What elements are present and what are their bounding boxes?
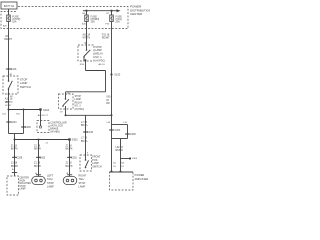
svg-text:18: 18 [121, 166, 124, 168]
svg-text:A20: A20 [3, 24, 8, 27]
svg-text:WT/TN: WT/TN [83, 37, 91, 40]
svg-text:A16: A16 [82, 23, 87, 26]
svg-text:LEFT: LEFT [47, 174, 54, 177]
svg-text:RIGHT: RIGHT [79, 174, 87, 177]
svg-text:C302: C302 [39, 156, 45, 159]
svg-text:BK/PK: BK/PK [66, 148, 73, 151]
svg-text:RD/WT: RD/WT [4, 38, 12, 41]
svg-text:STOP: STOP [47, 182, 54, 185]
svg-text:BK/PK: BK/PK [11, 148, 18, 151]
svg-text:RD: RD [106, 102, 110, 105]
svg-text:S104: S104 [43, 108, 50, 112]
svg-text:Z1: Z1 [46, 143, 49, 145]
svg-text:A35 18 VT: A35 18 VT [38, 114, 49, 117]
svg-text:L61: L61 [124, 122, 128, 124]
svg-text:RD/WT: RD/WT [102, 37, 110, 40]
svg-text:CENTER: CENTER [130, 12, 143, 16]
svg-text:BATT A0: BATT A0 [4, 4, 15, 8]
svg-text:87: 87 [60, 112, 63, 114]
svg-text:C206: C206 [25, 126, 31, 129]
svg-text:(IN PDC): (IN PDC) [95, 59, 105, 62]
svg-text:BK/YL: BK/YL [81, 140, 88, 143]
svg-text:C208: C208 [16, 156, 22, 159]
svg-text:F32: F32 [106, 24, 111, 26]
svg-text:LAMP: LAMP [47, 186, 54, 189]
svg-text:30: 30 [84, 42, 87, 45]
svg-text:HIGH: HIGH [19, 180, 25, 182]
svg-text:BK/PK: BK/PK [66, 165, 73, 168]
svg-text:(W-ABS): (W-ABS) [50, 131, 60, 134]
svg-text:BK/PK: BK/PK [34, 165, 41, 168]
svg-text:T50: T50 [16, 113, 21, 115]
svg-text:B1: B1 [10, 74, 13, 76]
svg-text:TAIL/: TAIL/ [79, 178, 85, 181]
svg-text:POWER: POWER [135, 173, 145, 177]
svg-text:STOP: STOP [19, 186, 26, 188]
svg-text:LAMP: LAMP [19, 188, 26, 191]
svg-text:S100: S100 [114, 73, 121, 77]
svg-text:15A: 15A [91, 21, 96, 24]
svg-text:(IN PDC): (IN PDC) [75, 108, 85, 111]
svg-text:C204: C204 [115, 129, 121, 132]
svg-text:A6 D3: A6 D3 [99, 63, 106, 66]
svg-text:SWITCH: SWITCH [92, 165, 102, 168]
svg-text:B1: B1 [113, 163, 116, 165]
svg-text:18 WT: 18 WT [5, 105, 12, 107]
svg-text:SWITCH: SWITCH [20, 85, 31, 89]
svg-text:BK/PK: BK/PK [11, 165, 18, 168]
svg-text:CENTER: CENTER [19, 178, 29, 180]
svg-text:18: 18 [113, 166, 116, 168]
svg-text:A: A [12, 168, 14, 171]
svg-text:S302: S302 [72, 138, 79, 142]
svg-text:20A: 20A [116, 21, 121, 24]
svg-text:C204: C204 [11, 121, 17, 124]
svg-text:C108: C108 [87, 131, 93, 134]
svg-text:C206: C206 [130, 133, 136, 136]
svg-text:C303: C303 [71, 156, 77, 159]
svg-text:BK/PK: BK/PK [34, 148, 41, 151]
svg-text:STOP: STOP [79, 182, 86, 185]
svg-text:C126: C126 [11, 68, 17, 71]
svg-text:AMPLIFIER: AMPLIFIER [135, 177, 149, 181]
svg-text:87A: 87A [80, 63, 84, 66]
svg-text:BK/YL: BK/YL [81, 124, 88, 127]
svg-text:BK/RD: BK/RD [116, 149, 124, 152]
svg-text:L60: L60 [107, 122, 111, 124]
svg-text:B4: B4 [121, 163, 124, 165]
svg-text:LAMP: LAMP [79, 186, 86, 189]
svg-text:MOUNTED: MOUNTED [19, 183, 31, 185]
svg-text:TAIL/: TAIL/ [47, 178, 53, 181]
svg-text:3: 3 [87, 153, 89, 155]
svg-text:S304: S304 [132, 158, 138, 160]
svg-text:L50: L50 [2, 113, 6, 115]
svg-text:15A: 15A [12, 21, 17, 24]
